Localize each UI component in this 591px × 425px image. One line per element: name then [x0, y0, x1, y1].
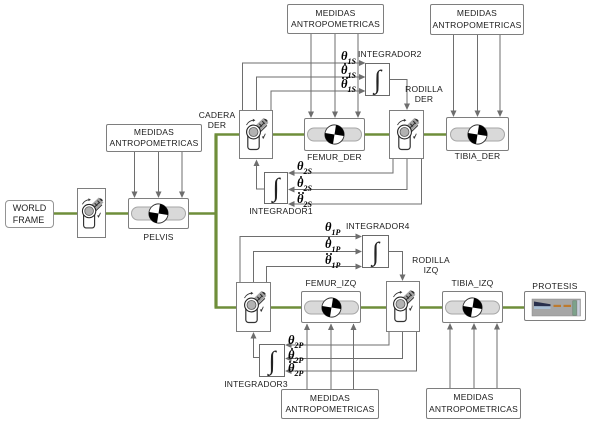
joint CADERA DER	[239, 110, 273, 159]
block MEDIDAS ANTROPOMETRICAS (above pelvis)	[106, 124, 202, 152]
wire WORLD->J1	[54, 212, 78, 215]
label PELVIS	[128, 232, 189, 242]
wire INTEGRADOR1->CADERA DER	[257, 164, 265, 189]
label INTEGRADOR2	[358, 49, 422, 59]
arrows down into TIBIA_DER	[451, 111, 457, 118]
theta_dot_1S	[341, 64, 356, 80]
wire trunk->CADERA IZQ	[215, 306, 238, 309]
wire MEDIDAS2->FEMUR_DER x3	[310, 34, 312, 117]
wire INTEGRADOR3->CADERA IZQ	[254, 337, 260, 358]
wire MEDIDAS4->FEMUR_IZQ x3	[306, 324, 308, 389]
label TIBIA_DER	[446, 151, 509, 161]
wire J1->PELVIS	[105, 212, 129, 215]
wire RODILLA IZQ->INTEGRADOR3 in1	[290, 332, 389, 345]
wire FEMUR_DER->RODILLA DER	[364, 133, 390, 136]
label TIBIA_IZQ	[442, 278, 503, 288]
label INTEGRADOR4	[346, 221, 410, 231]
joint J1 (world-pelvis)	[77, 188, 106, 238]
body TIBIA_DER	[446, 117, 509, 151]
body PELVIS	[128, 198, 189, 229]
joint RODILLA IZQ	[386, 281, 420, 332]
theta_dot_2P	[288, 349, 303, 365]
theta_ddot_2P	[288, 362, 303, 378]
label FEMUR_IZQ	[301, 278, 361, 288]
arrow up into CADERA IZQ	[251, 332, 257, 339]
label INTEGRADOR1	[249, 206, 313, 216]
label FEMUR_DER	[304, 152, 365, 162]
wire PELVIS->trunk	[188, 212, 217, 215]
wire CADERA DER->INTEGRADOR2 in3	[271, 91, 360, 110]
label CADERA DER	[196, 110, 238, 130]
wire INTEGRADOR4->RODILLA IZQ	[389, 252, 403, 277]
block MEDIDAS ANTROPOMETRICAS (below femur izq)	[281, 389, 379, 419]
label RODILLA IZQ	[410, 255, 452, 275]
joint RODILLA DER	[389, 110, 424, 159]
block INTEGRADOR4	[362, 235, 389, 268]
wire RODILLA IZQ->TIBIA_IZQ	[419, 306, 443, 309]
joint CADERA IZQ	[236, 282, 271, 332]
wire RODILLA IZQ->INTEGRADOR3 in3	[290, 332, 417, 371]
arrows up into TIBIA_IZQ	[447, 323, 453, 330]
wire MEDIDAS5->TIBIA_IZQ x3	[449, 324, 451, 388]
theta_ddot_2S	[297, 193, 312, 209]
arrows left into INTEGRADOR1	[288, 170, 295, 176]
arrow down into RODILLA DER	[404, 104, 410, 111]
wire CADERA IZQ->INTEGRADOR4 in1	[240, 237, 357, 283]
block PROTESIS (scope image)	[524, 291, 586, 321]
theta_dot_2S	[297, 177, 312, 193]
arrow up into CADERA DER	[254, 160, 260, 167]
theta_1P	[325, 221, 340, 237]
wire CADERA DER->INTEGRADOR2 in2	[257, 77, 361, 110]
arrows up into FEMUR_IZQ	[304, 324, 310, 331]
wire RODILLA DER->INTEGRADOR1 in1	[293, 159, 393, 173]
wire trunk vertical	[214, 135, 217, 308]
body FEMUR_DER	[304, 118, 365, 151]
label RODILLA DER	[403, 84, 445, 104]
block MEDIDAS ANTROPOMETRICAS (above femur der)	[287, 4, 384, 34]
block INTEGRADOR1	[264, 172, 288, 204]
theta_2S	[297, 160, 312, 176]
block WORLD FRAME	[5, 200, 54, 228]
arrows down into FEMUR_DER	[308, 112, 314, 119]
arrows left into INTEGRADOR3	[285, 342, 292, 348]
block MEDIDAS ANTROPOMETRICAS (above tibia der)	[430, 4, 524, 35]
theta_ddot_1P	[325, 254, 340, 270]
wire RODILLA DER->INTEGRADOR1 in2	[293, 159, 407, 190]
wire MEDIDAS3->TIBIA_DER x3	[453, 35, 455, 116]
body TIBIA_IZQ	[442, 291, 503, 323]
block MEDIDAS ANTROPOMETRICAS (below tibia izq)	[426, 388, 521, 419]
wire CADERA DER->FEMUR_DER	[272, 133, 305, 136]
arrow down into RODILLA IZQ	[400, 275, 406, 282]
theta_ddot_1S	[341, 78, 356, 94]
block INTEGRADOR3	[259, 344, 285, 377]
wire CADERA DER->INTEGRADOR2 in1	[243, 63, 361, 110]
wire FEMUR_IZQ->RODILLA IZQ	[360, 306, 387, 309]
arrows right into INTEGRADOR2	[359, 60, 366, 66]
wire trunk->CADERA DER	[215, 133, 241, 136]
arrows down into PELVIS	[132, 192, 138, 199]
theta_2P	[288, 334, 303, 350]
wire CADERA IZQ->INTEGRADOR4 in2	[254, 252, 358, 283]
theta_dot_1P	[325, 238, 340, 254]
label INTEGRADOR3	[224, 379, 288, 389]
wire RODILLA DER->INTEGRADOR1 in3	[293, 159, 422, 204]
label PROTESIS	[524, 281, 586, 291]
wire RODILLA DER->TIBIA_DER	[423, 133, 447, 136]
wire MEDIDAS1->PELVIS x3	[134, 152, 136, 197]
wire RODILLA IZQ->INTEGRADOR3 in2	[290, 332, 403, 359]
wire CADERA IZQ->FEMUR_IZQ	[270, 306, 302, 309]
wire INTEGRADOR2->RODILLA DER	[390, 80, 407, 106]
wire CADERA IZQ->INTEGRADOR4 in3	[267, 267, 358, 283]
arrows right into INTEGRADOR4	[356, 234, 363, 240]
wire TIBIA_IZQ->PROTESIS	[502, 306, 525, 309]
block INTEGRADOR2	[365, 63, 390, 96]
body FEMUR_IZQ	[301, 291, 361, 323]
theta_1S	[341, 50, 356, 66]
